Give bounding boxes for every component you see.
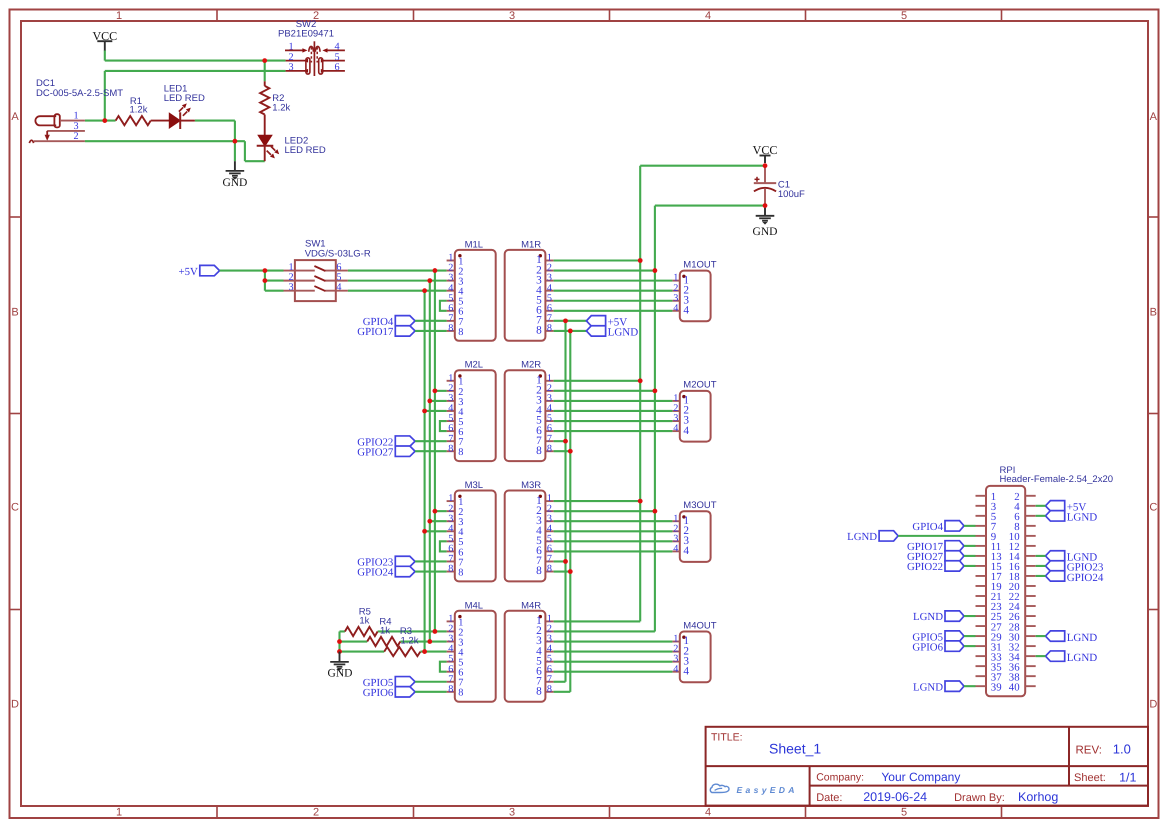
power flag VCC (C1) xyxy=(753,143,778,163)
LED LED2 LED RED xyxy=(257,135,326,161)
header M3OUT xyxy=(672,500,716,562)
wire M4R pin6 to M4OUT pin4 xyxy=(554,671,673,673)
wire M3R pin6 to M3OUT pin4 xyxy=(554,550,673,552)
svg-text:4: 4 xyxy=(683,425,689,437)
wire C1 bottom to M-R pin2 rail xyxy=(655,205,765,207)
svg-text:M2R: M2R xyxy=(521,360,541,371)
node junction rail/M3L pin3 xyxy=(427,519,432,524)
resistor R5 1k xyxy=(345,606,378,636)
wire DC1 pin1 to R1 xyxy=(85,120,116,122)
node junction M1R pin7/+5V rail xyxy=(563,318,568,323)
svg-text:M1R: M1R xyxy=(521,239,541,250)
svg-text:3: 3 xyxy=(289,62,294,73)
wire M3R pin5 to M3OUT pin3 xyxy=(554,540,673,542)
wire M4R pin2 to GND rail xyxy=(554,630,655,632)
svg-text:100uF: 100uF xyxy=(778,189,805,200)
node junction rail/M2L pin4 xyxy=(422,409,427,414)
wire M3R pin3 to M3OUT pin1 xyxy=(554,520,673,522)
svg-text:VDG/S-03LG-R: VDG/S-03LG-R xyxy=(305,248,371,259)
wire M2R pin4 to M2OUT pin2 xyxy=(554,410,673,412)
net flag GPIO5 xyxy=(363,677,415,689)
svg-text:39: 39 xyxy=(991,681,1002,693)
svg-text:Sheet:: Sheet: xyxy=(1074,772,1106,784)
net flag LGND (M1R pin8) xyxy=(586,326,638,339)
svg-text:TITLE:: TITLE: xyxy=(711,731,743,743)
wire GPIO17 to RPI pin 11 xyxy=(964,545,976,547)
wire M2L pin5-pin6 loop xyxy=(440,421,447,431)
svg-text:Your Company: Your Company xyxy=(881,770,960,784)
svg-text:4: 4 xyxy=(673,423,678,434)
wire M3R pin7 to +5V rail xyxy=(554,560,566,562)
svg-text:1k: 1k xyxy=(359,615,369,626)
wire GPIO6 to RPI pin 31 xyxy=(964,645,976,647)
wire M1R pin3 to M1OUT pin1 xyxy=(554,280,673,282)
node junction rail/M1L pin4 xyxy=(422,288,427,293)
svg-text:M2L: M2L xyxy=(465,360,483,371)
wire M4R pin8 to LGND rail xyxy=(554,691,571,693)
wire rail GND (x=654.9) xyxy=(654,206,656,632)
net flag GPIO4 (RPI pin 7) xyxy=(912,521,964,533)
node junction VCC/R2 xyxy=(262,58,267,63)
svg-text:1/1: 1/1 xyxy=(1119,770,1136,784)
svg-text:LGND: LGND xyxy=(1067,652,1098,664)
node junction rail/M4L pin4 xyxy=(422,649,427,654)
net flag LGND (RPI pin 6) xyxy=(1046,511,1098,524)
svg-text:4: 4 xyxy=(705,807,711,819)
node junction M3R pin2/GND rail xyxy=(653,509,658,514)
svg-text:1.0: 1.0 xyxy=(1113,742,1131,757)
node junction M1R pin1/VCC rail xyxy=(638,258,643,263)
svg-text:2: 2 xyxy=(73,131,78,142)
svg-text:LED RED: LED RED xyxy=(164,93,205,104)
wire rail to M3L pin4 xyxy=(425,530,447,532)
node junction M1R pin2/GND rail xyxy=(653,268,658,273)
svg-text:1.2k: 1.2k xyxy=(272,102,290,113)
header M2OUT xyxy=(672,380,716,442)
svg-text:2: 2 xyxy=(313,807,319,819)
svg-text:3: 3 xyxy=(73,121,78,132)
svg-text:GPIO27: GPIO27 xyxy=(357,446,394,458)
switch SW2 PB21E09471 xyxy=(278,19,345,76)
net flag +5V (input) xyxy=(179,265,220,277)
EasyEDA logo xyxy=(710,784,798,795)
wire resistor common to GND xyxy=(338,631,340,651)
svg-text:DC-005-5A-2.5-SMT: DC-005-5A-2.5-SMT xyxy=(36,88,123,99)
wire M4R pin1 to VCC rail xyxy=(554,620,641,622)
svg-text:Header-Female-2.54_2x20: Header-Female-2.54_2x20 xyxy=(1000,474,1114,485)
wire rail net SW-B (x=429.8) xyxy=(429,281,431,642)
wire M2R pin3 to M2OUT pin1 xyxy=(554,400,673,402)
node junction GND net xyxy=(233,139,238,144)
wire M2R pin7 to +5V rail xyxy=(554,440,566,442)
svg-text:4: 4 xyxy=(673,544,678,555)
net flag GPIO4 xyxy=(363,316,415,328)
svg-text:8: 8 xyxy=(536,325,542,337)
wire RPI pin 18 to GPIO24 xyxy=(1036,575,1046,577)
connector RPI Header-Female-2.54_2x20 xyxy=(976,465,1114,696)
wire M2R pin5 to M2OUT pin3 xyxy=(554,420,673,422)
svg-text:8: 8 xyxy=(536,686,542,698)
wire R1 to LED1 xyxy=(151,120,170,122)
svg-text:4: 4 xyxy=(336,282,341,293)
svg-text:GPIO6: GPIO6 xyxy=(912,641,943,653)
net flag LGND (RPI pin 14) xyxy=(1046,551,1098,564)
svg-text:EasyEDA: EasyEDA xyxy=(737,785,798,795)
svg-text:GND: GND xyxy=(222,177,247,189)
title block REV xyxy=(1076,742,1131,757)
wire LGND to RPI pin 39 xyxy=(964,685,976,687)
svg-text:8: 8 xyxy=(448,323,453,334)
node junction R4/GND xyxy=(337,639,342,644)
svg-text:LGND: LGND xyxy=(1067,632,1098,644)
wire M4L pin5-pin6 loop xyxy=(440,662,447,672)
wire GPIO24 to M3L pin8 xyxy=(415,570,447,572)
net flag GPIO23 (RPI pin 16) xyxy=(1046,561,1104,574)
wire M3R pin8 to LGND rail xyxy=(554,570,571,572)
frame row letters right xyxy=(1149,111,1157,711)
net flag +5V (RPI pin 4) xyxy=(1046,501,1087,514)
wire GPIO27 to M2L pin8 xyxy=(415,450,447,452)
svg-text:D: D xyxy=(11,698,19,710)
svg-text:8: 8 xyxy=(458,447,463,458)
svg-text:1: 1 xyxy=(116,807,122,819)
net flag GPIO6 (RPI pin 31) xyxy=(912,641,964,653)
svg-text:LGND: LGND xyxy=(913,611,943,623)
svg-text:1k: 1k xyxy=(380,625,390,636)
net flag GPIO24 (RPI pin 18) xyxy=(1046,571,1104,584)
wire M3R pin1 to VCC rail xyxy=(554,500,641,502)
net flag GPIO22 xyxy=(357,436,415,448)
svg-text:8: 8 xyxy=(547,323,552,334)
node junction M3R pin1/VCC rail xyxy=(638,499,643,504)
svg-text:6: 6 xyxy=(335,62,340,73)
net flag LGND (RPI pin 39) xyxy=(913,681,964,693)
LED LED1 LED RED xyxy=(164,83,205,129)
svg-text:D: D xyxy=(1149,698,1157,710)
node junction M1R pin8/LGND rail xyxy=(568,329,573,334)
wire GPIO5 to RPI pin 29 xyxy=(964,635,976,637)
svg-text:Date:: Date: xyxy=(816,792,842,804)
header M2L xyxy=(447,360,496,461)
wire M1R pin4 to M1OUT pin2 xyxy=(554,290,673,292)
wire M2R pin6 to M2OUT pin4 xyxy=(554,430,673,432)
node junction rail/M2L pin2 xyxy=(433,388,438,393)
node junction M3R pin8/LGND rail xyxy=(568,569,573,574)
net flag GPIO6 xyxy=(363,687,415,699)
svg-text:Drawn By:: Drawn By: xyxy=(954,792,1005,804)
svg-text:4: 4 xyxy=(673,664,678,675)
switch SW1 VDG/S-03LG-R xyxy=(284,238,371,301)
title block Sheet xyxy=(1074,770,1137,784)
node junction M2R pin8/LGND rail xyxy=(568,449,573,454)
net flag GPIO17 xyxy=(357,326,415,338)
wire RPI pin 6 to LGND xyxy=(1036,515,1046,517)
wire junction to GND xyxy=(234,141,236,161)
svg-text:M3L: M3L xyxy=(465,480,483,491)
wire M2R pin1 to VCC rail xyxy=(554,380,641,382)
net flag LGND (RPI pin 9) xyxy=(847,531,898,543)
node junction M2R pin7/+5V rail xyxy=(563,439,568,444)
node junction rail/M1L pin2 xyxy=(433,268,438,273)
frame row letters left xyxy=(11,111,19,711)
title block Date xyxy=(816,790,927,804)
node junction rail/M4L pin2 xyxy=(433,629,438,634)
svg-text:GPIO4: GPIO4 xyxy=(912,521,943,533)
wire rail to M3L pin3 xyxy=(430,520,447,522)
svg-text:GPIO17: GPIO17 xyxy=(357,326,394,338)
svg-text:8: 8 xyxy=(547,564,552,575)
svg-text:Korhog: Korhog xyxy=(1018,790,1058,804)
wire VCC rail to M-R pin1 rail xyxy=(640,165,765,167)
svg-text:M1OUT: M1OUT xyxy=(683,259,716,270)
node junction rail/M1L pin3 xyxy=(427,278,432,283)
frame column numbers top xyxy=(116,10,907,22)
ground symbol (LED2/DC1) xyxy=(222,161,247,189)
svg-text:GPIO24: GPIO24 xyxy=(357,567,394,579)
header M4R xyxy=(505,600,554,701)
svg-text:2019-06-24: 2019-06-24 xyxy=(863,790,927,804)
wire M4L pin3 row with R4 xyxy=(340,640,447,642)
wire rail to M2L pin3 xyxy=(430,400,447,402)
resistor R3 1.2k xyxy=(384,626,420,656)
wire SW1 pin5 to M1L pin3 xyxy=(348,280,447,282)
wire M1R pin5 to M1OUT pin3 xyxy=(554,300,673,302)
svg-text:4: 4 xyxy=(673,303,678,314)
svg-text:8: 8 xyxy=(458,327,463,338)
wire rail +5V (x=565.5) xyxy=(564,321,566,682)
svg-text:4: 4 xyxy=(683,665,689,677)
net flag +5V (M1R pin7) xyxy=(586,316,627,329)
svg-text:1: 1 xyxy=(73,110,78,121)
wire SW1 pin4 to M1L pin4 xyxy=(348,290,447,292)
header M1OUT xyxy=(672,259,716,321)
net flag GPIO22 (RPI pin 15) xyxy=(907,561,964,573)
wire RPI pin 14 to LGND xyxy=(1036,555,1046,557)
wire M3L pin5-pin6 loop xyxy=(440,541,447,551)
svg-text:8: 8 xyxy=(448,564,453,575)
header M3R xyxy=(505,480,554,581)
wire M3R pin4 to M3OUT pin2 xyxy=(554,530,673,532)
wire VCC to SW2 pin2 xyxy=(105,51,286,61)
net flag GPIO17 (RPI pin 11) xyxy=(907,541,964,553)
svg-text:M3OUT: M3OUT xyxy=(683,500,716,511)
svg-text:8: 8 xyxy=(547,443,552,454)
svg-text:GPIO22: GPIO22 xyxy=(907,561,943,573)
resistor R4 1k xyxy=(367,617,400,647)
svg-text:Company:: Company: xyxy=(816,771,864,783)
resistor R2 1.2k xyxy=(260,81,290,135)
svg-text:LGND: LGND xyxy=(1067,512,1098,524)
wire M4R pin3 to M4OUT pin1 xyxy=(554,640,673,642)
wire rail net SW-C (x=424.6) xyxy=(424,291,426,652)
wire M4L pin4 row with R3 xyxy=(340,651,447,653)
node junction M2R pin2/GND rail xyxy=(653,388,658,393)
net flag LGND (RPI pin 25) xyxy=(913,611,964,623)
frame column numbers bottom xyxy=(116,807,907,819)
net flag GPIO27 (RPI pin 13) xyxy=(907,551,964,563)
net flag GPIO23 xyxy=(357,556,415,568)
wire LED1 to GND corner xyxy=(195,121,235,142)
net flag GPIO27 xyxy=(357,446,415,458)
svg-text:3: 3 xyxy=(509,10,515,22)
wire +5V branch to SW1 pins 2,3 xyxy=(265,271,284,291)
svg-text:4: 4 xyxy=(705,10,711,22)
wire rail to M2L pin2 xyxy=(435,390,447,392)
svg-text:B: B xyxy=(11,307,18,319)
svg-text:GND: GND xyxy=(328,667,353,679)
wire LGND to RPI pin 25 xyxy=(964,615,976,617)
wire M2R pin2 to GND rail xyxy=(554,390,655,392)
wire LGND to RPI pin 9 xyxy=(898,535,975,537)
svg-text:M2OUT: M2OUT xyxy=(683,380,716,391)
svg-text:8: 8 xyxy=(547,684,552,695)
connector DC1 DC-005-5A-2.5-SMT xyxy=(29,78,123,143)
capacitor C1 100uF xyxy=(754,166,805,206)
wire M4R pin5 to M4OUT pin3 xyxy=(554,661,673,663)
wire rail LGND (x=570.3) xyxy=(569,331,571,692)
wire M1R pin6 to M1OUT pin4 xyxy=(554,310,673,312)
wire rail to M2L pin4 xyxy=(425,410,447,412)
wire M1L pin5-pin6 loop xyxy=(440,301,447,311)
wire rail to M3L pin2 xyxy=(435,510,447,512)
wire M4L pin2 row with R5 xyxy=(340,630,447,632)
svg-text:Sheet_1: Sheet_1 xyxy=(769,741,821,757)
svg-text:REV:: REV: xyxy=(1076,744,1102,756)
node junction +5V row2 xyxy=(263,278,268,283)
wire rail net SW-A (x=434.9) xyxy=(434,271,436,632)
header M4L xyxy=(447,600,496,701)
wire M3R pin2 to GND rail xyxy=(554,510,655,512)
wire M4R pin4 to M4OUT pin2 xyxy=(554,651,673,653)
svg-text:A: A xyxy=(1150,111,1158,123)
svg-text:1.2k: 1.2k xyxy=(130,105,148,116)
node junction DC1 pin1 xyxy=(102,118,107,123)
wire M1R pin1 to VCC rail xyxy=(554,259,641,261)
title block sheet name xyxy=(769,741,821,757)
svg-text:LED RED: LED RED xyxy=(285,145,326,156)
svg-text:GPIO6: GPIO6 xyxy=(363,687,394,699)
node junction C1 top xyxy=(763,163,768,168)
svg-text:8: 8 xyxy=(448,443,453,454)
wire GPIO4 to M1L pin7 xyxy=(415,320,447,322)
svg-text:M4R: M4R xyxy=(521,600,541,611)
svg-text:8: 8 xyxy=(458,688,463,699)
svg-text:8: 8 xyxy=(448,684,453,695)
node junction rail/M3L pin4 xyxy=(422,529,427,534)
node junction M2R pin1/VCC rail xyxy=(638,378,643,383)
wire M1R pin8 to LGND rail xyxy=(554,330,587,332)
net flag LGND (RPI pin 34) xyxy=(1046,651,1098,664)
wire M2R pin8 to LGND rail xyxy=(554,450,571,452)
ground symbol (C1) xyxy=(753,206,778,238)
wire GPIO27 to RPI pin 13 xyxy=(964,555,976,557)
node junction rail/M4L pin3 xyxy=(427,639,432,644)
svg-text:GND: GND xyxy=(753,226,778,238)
wire rail VCC (x=640.2) xyxy=(639,166,641,622)
wire DC1 pin1 vertical to SW2 pin3 row xyxy=(105,71,286,121)
wire M4R pin7 to +5V rail xyxy=(554,681,566,683)
svg-text:M3R: M3R xyxy=(521,480,541,491)
svg-text:8: 8 xyxy=(536,565,542,577)
header M4OUT xyxy=(672,620,716,682)
header M1L xyxy=(447,239,496,340)
power flag VCC (top left) xyxy=(92,29,117,51)
ground symbol (R3/R4/R5) xyxy=(328,652,353,680)
svg-text:LGND: LGND xyxy=(913,681,943,693)
svg-text:4: 4 xyxy=(683,305,689,317)
wire +5V to SW1 pin1 xyxy=(220,270,284,272)
header M3L xyxy=(447,480,496,581)
header M2R xyxy=(505,360,554,461)
wire M1R pin2 to GND rail xyxy=(554,270,655,272)
svg-text:1.2k: 1.2k xyxy=(401,635,419,646)
wire RPI pin 30 to LGND xyxy=(1036,635,1046,637)
svg-text:M4OUT: M4OUT xyxy=(683,620,716,631)
net flag GPIO24 xyxy=(357,566,415,578)
svg-text:LGND: LGND xyxy=(608,327,639,339)
title block TITLE label xyxy=(711,731,743,743)
node junction +5V row1 xyxy=(263,268,268,273)
node junction rail/M3L pin2 xyxy=(433,509,438,514)
svg-text:A: A xyxy=(11,111,19,123)
svg-text:M4L: M4L xyxy=(465,600,483,611)
svg-text:1: 1 xyxy=(116,10,122,22)
wire RPI pin 4 to +5V xyxy=(1036,505,1046,507)
svg-text:GPIO24: GPIO24 xyxy=(1067,572,1104,584)
wire RPI pin 16 to GPIO23 xyxy=(1036,565,1046,567)
net flag GPIO5 (RPI pin 29) xyxy=(912,631,964,643)
svg-text:C: C xyxy=(1149,502,1157,514)
svg-text:M1L: M1L xyxy=(465,239,483,250)
resistor R1 1.2k xyxy=(116,96,151,125)
svg-text:3: 3 xyxy=(509,807,515,819)
title block grid xyxy=(706,727,1148,806)
wire GPIO23 to M3L pin7 xyxy=(415,560,447,562)
wire M1R pin7 to +5V rail xyxy=(554,320,587,322)
svg-text:8: 8 xyxy=(458,567,463,578)
svg-text:5: 5 xyxy=(901,10,907,22)
wire GPIO17 to M1L pin8 xyxy=(415,330,447,332)
wire GPIO4 to RPI pin 7 xyxy=(964,525,976,527)
svg-text:4: 4 xyxy=(683,545,689,557)
header M1R xyxy=(505,239,554,340)
node junction R3/GND xyxy=(337,649,342,654)
wire GPIO22 to RPI pin 15 xyxy=(964,565,976,567)
svg-text:40: 40 xyxy=(1009,681,1020,693)
wire GPIO6 to M4L pin8 xyxy=(415,691,447,693)
wire RPI pin 34 to LGND xyxy=(1036,655,1046,657)
svg-text:C: C xyxy=(11,502,19,514)
wire junction to R2 xyxy=(264,61,266,82)
svg-text:8: 8 xyxy=(536,445,542,457)
wire SW1 pin6 to M1L pin2 xyxy=(348,270,447,272)
svg-text:3: 3 xyxy=(289,282,294,293)
node junction C1 bottom xyxy=(763,203,768,208)
wire DC1 pin2 to LED2 cathode xyxy=(85,141,265,161)
svg-text:5: 5 xyxy=(901,807,907,819)
svg-text:B: B xyxy=(1150,307,1157,319)
wire GPIO22 to M2L pin7 xyxy=(415,440,447,442)
node junction M3R pin7/+5V rail xyxy=(563,559,568,564)
net flag LGND (RPI pin 30) xyxy=(1046,631,1098,644)
wire GPIO5 to M4L pin7 xyxy=(415,681,447,683)
svg-text:+5V: +5V xyxy=(179,266,198,278)
title block Company xyxy=(816,770,960,784)
svg-text:LGND: LGND xyxy=(847,531,877,543)
node junction rail/M2L pin3 xyxy=(427,399,432,404)
title block Drawn By xyxy=(954,790,1058,804)
svg-text:PB21E09471: PB21E09471 xyxy=(278,29,334,40)
